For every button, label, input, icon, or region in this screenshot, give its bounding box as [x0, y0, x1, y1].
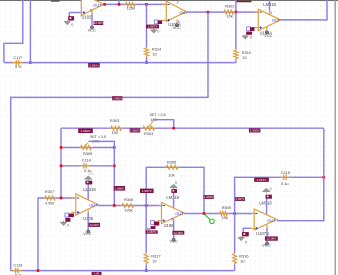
net 0 label	[250, 36, 252, 40]
VCC symbol	[265, 31, 268, 34]
LM318 label	[166, 195, 179, 200]
R304 SET label	[150, 113, 166, 117]
R305 label	[83, 151, 92, 156]
svg-text:OUT: OUT	[267, 218, 276, 223]
wire	[145, 206, 147, 253]
svg-text:1.967V: 1.967V	[142, 189, 153, 193]
svg-text:1.96: 1.96	[94, 272, 100, 275]
wire	[68, 13, 70, 17]
svg-text:10k: 10k	[168, 172, 174, 177]
LM318 label	[83, 187, 96, 192]
svg-text:C118: C118	[13, 263, 22, 268]
net 0 label	[270, 187, 272, 191]
U103 label	[168, 22, 181, 27]
svg-text:100: 100	[112, 130, 119, 135]
probe 1.960V	[114, 186, 126, 191]
probe 1.960V	[249, 128, 261, 132]
probe 1.960V	[203, 195, 214, 199]
svg-text:0: 0	[270, 187, 272, 191]
U106 label	[164, 223, 175, 228]
R302 label	[225, 4, 234, 19]
node junction	[145, 269, 148, 272]
R307 label	[45, 189, 55, 206]
wire	[237, 0, 252, 2]
C114 value	[84, 168, 94, 175]
R317 label	[151, 254, 160, 264]
VCC label	[88, 27, 96, 32]
U107 + lead	[250, 227, 254, 229]
svg-text:3: 3	[270, 11, 272, 15]
U104 power pin	[266, 27, 268, 31]
wire	[11, 270, 235, 272]
svg-text:0: 0	[175, 181, 177, 185]
node junction	[113, 165, 116, 168]
probe 12.00V	[265, 236, 278, 240]
svg-text:12.00V: 12.00V	[93, 21, 104, 25]
svg-text:0: 0	[250, 36, 252, 40]
R316 label	[239, 254, 248, 264]
U106 bottom power pin	[171, 217, 173, 238]
top window border	[0, 0, 338, 2]
U102 label	[82, 15, 93, 20]
wire	[146, 57, 148, 62]
svg-text:SET = 0.5: SET = 0.5	[150, 113, 166, 117]
svg-text:R306: R306	[167, 160, 176, 165]
wire	[69, 12, 81, 14]
svg-text:10k: 10k	[227, 14, 233, 19]
U107 label	[256, 231, 269, 236]
svg-text:R305: R305	[83, 151, 92, 156]
svg-text:1.967u: 1.967u	[89, 63, 99, 67]
potentiometer R304	[142, 121, 156, 131]
probe P107t	[266, 195, 272, 199]
svg-text:0: 0	[157, 29, 159, 33]
svg-text:U106: U106	[164, 223, 175, 228]
wire	[4, 0, 23, 63]
U105 top power pin	[87, 183, 89, 201]
svg-text:5 %: 5 %	[89, 172, 94, 176]
VCC label	[169, 238, 177, 243]
wire	[235, 12, 237, 49]
wire	[98, 205, 162, 207]
node junction	[113, 146, 116, 149]
U104 top power pin	[270, 0, 273, 15]
C115 value	[281, 181, 289, 186]
U102 OUT label	[93, 2, 102, 7]
right window border	[334, 0, 336, 275]
U104 + lead	[253, 27, 258, 29]
node junction	[172, 127, 175, 130]
U104 label	[260, 31, 273, 36]
node junction	[60, 165, 63, 168]
svg-text:OUT: OUT	[272, 18, 281, 23]
C118 label	[13, 263, 22, 268]
svg-text:VCC: VCC	[262, 243, 270, 248]
wire	[235, 177, 324, 213]
node junction	[235, 11, 238, 14]
node junction	[29, 61, 32, 64]
svg-text:C115: C115	[281, 170, 290, 175]
wire	[145, 264, 147, 270]
node junction	[60, 146, 63, 149]
U106 - lead	[158, 205, 162, 207]
C117 label	[13, 55, 22, 60]
wire	[61, 127, 324, 129]
svg-text:1.967V: 1.967V	[236, 197, 245, 201]
U105 - input mark	[77, 197, 79, 199]
svg-text:5: 5	[178, 20, 180, 24]
wire	[60, 128, 62, 198]
C115 label	[281, 170, 290, 175]
svg-text:1.967V: 1.967V	[148, 25, 159, 29]
probe 1.967V	[235, 197, 245, 201]
resistor R309	[219, 211, 229, 215]
svg-text:0: 0	[67, 223, 69, 227]
svg-text:R303: R303	[110, 118, 119, 123]
ground	[84, 176, 92, 181]
probe 1.967V	[254, 178, 269, 182]
svg-text:126k: 126k	[127, 6, 135, 11]
U106 - input mark	[163, 205, 165, 207]
126k value	[127, 6, 135, 11]
ground	[170, 184, 178, 189]
svg-text:5 %: 5 %	[15, 65, 22, 69]
svg-text:12.00V: 12.00V	[173, 231, 184, 235]
svg-text:1.960V: 1.960V	[81, 129, 92, 133]
wire	[61, 147, 114, 149]
probe P104	[246, 27, 254, 35]
resistor R307	[44, 196, 56, 200]
LM318 label	[263, 2, 276, 7]
U106 + input mark	[163, 220, 165, 222]
wire	[61, 165, 114, 167]
U103 - input mark	[167, 4, 169, 6]
probe 1.967V	[146, 25, 159, 29]
probe 1.967u	[92, 272, 102, 275]
svg-text:LM318: LM318	[83, 187, 96, 192]
wire	[235, 0, 237, 12]
node junction	[145, 204, 148, 207]
probe 1.967V	[140, 189, 154, 193]
resistor R303	[110, 126, 123, 130]
R308 label	[124, 197, 133, 213]
U105 bottom power pin	[87, 209, 89, 230]
U107 top power pin	[266, 197, 268, 215]
U105 OUT label	[89, 203, 98, 208]
op-amp U107	[254, 209, 277, 230]
probe 12.00V	[172, 231, 184, 235]
U107 - input mark	[255, 213, 257, 215]
U106 OUT label	[175, 211, 184, 216]
ground	[238, 236, 244, 241]
U107 - lead	[251, 213, 255, 215]
op-amp U104	[258, 9, 280, 31]
op-amp U106	[162, 203, 185, 224]
probe P105t	[85, 181, 92, 185]
resistor R302	[223, 10, 235, 14]
R303 label	[110, 118, 119, 135]
node junction	[118, 3, 121, 6]
potentiometer R305	[80, 143, 93, 150]
U105 label	[83, 216, 94, 221]
LM318 label	[259, 201, 272, 206]
node junction	[60, 197, 63, 200]
probe P106t	[171, 189, 177, 193]
wire	[146, 167, 204, 213]
op-amp U103	[166, 1, 186, 21]
resistor 126k	[125, 2, 137, 6]
C117 tolerance	[15, 65, 22, 69]
svg-text:R310: R310	[242, 50, 252, 55]
svg-text:C117: C117	[13, 55, 22, 60]
wire	[243, 228, 250, 232]
wire	[234, 214, 236, 253]
resistor R308	[121, 203, 135, 207]
wire	[153, 120, 173, 129]
probe 1.960V	[130, 128, 141, 132]
node junction	[103, 3, 106, 6]
svg-text:1.960V: 1.960V	[114, 187, 125, 191]
svg-text:1.960V: 1.960V	[204, 195, 215, 199]
U105 - lead	[72, 197, 76, 199]
U102 + input mark	[83, 11, 85, 13]
svg-text:10k: 10k	[222, 215, 228, 220]
wire	[118, 0, 120, 4]
capacitor C114	[80, 163, 91, 168]
U103 - lead	[163, 4, 167, 6]
node junction	[145, 3, 148, 6]
U104 + input mark	[259, 26, 261, 28]
svg-text:VCC: VCC	[264, 33, 272, 38]
probe 12.00V	[89, 223, 101, 227]
U105 + lead	[71, 211, 76, 213]
VCC symbol	[91, 26, 94, 29]
VCC symbol	[172, 238, 175, 241]
svg-text:12.00V: 12.00V	[266, 237, 277, 241]
U105 + input mark	[77, 211, 79, 213]
U103 pin 3	[177, 0, 179, 4]
svg-text:0.1u: 0.1u	[281, 181, 289, 186]
net 0 label	[157, 29, 159, 33]
net 0 label	[245, 240, 247, 244]
net 0 label	[175, 181, 177, 185]
svg-text:R302: R302	[225, 4, 234, 9]
wire	[146, 4, 148, 47]
probe P102	[68, 16, 74, 20]
svg-text:1.967V: 1.967V	[257, 178, 268, 182]
svg-text:1.960V: 1.960V	[130, 129, 141, 133]
probe 1.960V	[112, 96, 123, 100]
svg-text:VCC: VCC	[173, 25, 181, 30]
svg-text:VCC: VCC	[83, 231, 91, 236]
wire	[235, 60, 237, 63]
U107 + input mark	[255, 227, 257, 229]
wire	[281, 0, 328, 20]
svg-text:3: 3	[177, 0, 179, 4]
R305 value	[92, 140, 100, 144]
svg-text:1.960V: 1.960V	[250, 129, 261, 133]
wire	[38, 198, 76, 271]
measurement probe	[205, 214, 215, 223]
ground	[60, 221, 66, 226]
U107 bottom power pin	[266, 224, 268, 242]
node junction	[203, 212, 206, 215]
net 0 label	[71, 23, 73, 27]
U102 power pin	[90, 8, 92, 25]
R310 label	[242, 50, 252, 60]
svg-text:1.960V: 1.960V	[112, 96, 123, 100]
probe P103	[154, 20, 162, 24]
VCC symbol	[266, 242, 269, 245]
U106 + probe cluster	[145, 221, 159, 235]
C114 label	[82, 158, 92, 163]
VCC label	[173, 25, 181, 30]
svg-text:LM318: LM318	[259, 201, 272, 206]
svg-text:R309: R309	[222, 205, 231, 210]
node junction	[323, 176, 326, 179]
svg-text:R308: R308	[124, 197, 133, 202]
VCC symbol	[87, 230, 90, 233]
resistor R310	[234, 49, 238, 59]
capacitor C115	[280, 175, 291, 180]
op-amp U102	[81, 0, 103, 16]
resistor R306	[165, 165, 179, 169]
resistor R317	[144, 253, 148, 265]
resistor R316	[233, 253, 237, 265]
VCC symbol	[176, 24, 179, 27]
U103 + input mark	[167, 19, 169, 21]
svg-text:0: 0	[245, 240, 247, 244]
C118 tolerance	[15, 273, 22, 275]
wire	[89, 141, 115, 205]
node junction	[113, 204, 116, 207]
wire	[234, 264, 236, 270]
probe P105p	[65, 213, 74, 222]
svg-text:4.95k: 4.95k	[45, 201, 55, 206]
VCC label	[262, 243, 270, 248]
svg-text:SET = 0.5: SET = 0.5	[90, 135, 106, 139]
wire	[184, 213, 254, 215]
R304 label	[144, 131, 154, 136]
VCC label	[264, 33, 272, 38]
svg-text:U102: U102	[82, 15, 93, 20]
wire	[186, 11, 258, 13]
ground	[151, 29, 157, 34]
svg-text:0: 0	[71, 23, 73, 27]
R314 label	[152, 47, 162, 57]
U106 top power pin	[173, 191, 175, 209]
svg-text:R307: R307	[45, 189, 54, 194]
resistor R314	[144, 47, 148, 57]
probe 12.00V	[93, 21, 104, 25]
svg-text:OUT: OUT	[175, 211, 184, 216]
ground	[263, 188, 271, 193]
wire	[11, 12, 208, 271]
node junction	[145, 61, 148, 64]
svg-text:5: 5	[171, 217, 173, 221]
U104 OUT label	[272, 18, 281, 23]
svg-text:OUT: OUT	[93, 2, 102, 7]
op-amp U105	[76, 194, 98, 215]
wire	[277, 128, 324, 221]
U107 OUT label	[267, 218, 276, 223]
wire	[104, 3, 167, 5]
node junction	[233, 212, 236, 215]
svg-text:126k: 126k	[124, 207, 132, 212]
svg-text:R304: R304	[144, 131, 154, 136]
wire	[4, 62, 236, 64]
U104 - input mark	[259, 11, 261, 13]
wire	[29, 0, 31, 63]
node junction	[207, 11, 210, 14]
probe 1.967u	[88, 63, 100, 68]
U104 - lead	[255, 11, 259, 13]
net 0 label	[67, 223, 69, 227]
U103 + lead	[162, 19, 167, 21]
capacitor C118	[12, 268, 23, 273]
VCC label	[83, 231, 91, 236]
R309 label	[222, 205, 231, 220]
svg-text:OUT: OUT	[89, 203, 98, 208]
node junction	[37, 269, 40, 272]
U103 OUT label	[180, 10, 189, 15]
ground	[242, 35, 248, 40]
R305 SET label	[90, 135, 106, 139]
svg-text:VCC: VCC	[169, 238, 177, 243]
probe 1.960V	[78, 128, 93, 133]
capacitor C117	[12, 60, 23, 65]
U106 + lead	[158, 220, 162, 222]
U103 power pin	[177, 19, 180, 24]
svg-text:C114: C114	[82, 158, 92, 163]
svg-text:12.00V: 12.00V	[89, 223, 100, 227]
R304 value	[151, 118, 157, 122]
svg-text:VCC: VCC	[88, 27, 96, 32]
ground	[64, 20, 70, 25]
svg-text:1.967V: 1.967V	[147, 230, 156, 234]
R306 label	[167, 160, 176, 178]
probe P107p	[242, 232, 249, 236]
svg-text:5: 5	[90, 8, 92, 12]
